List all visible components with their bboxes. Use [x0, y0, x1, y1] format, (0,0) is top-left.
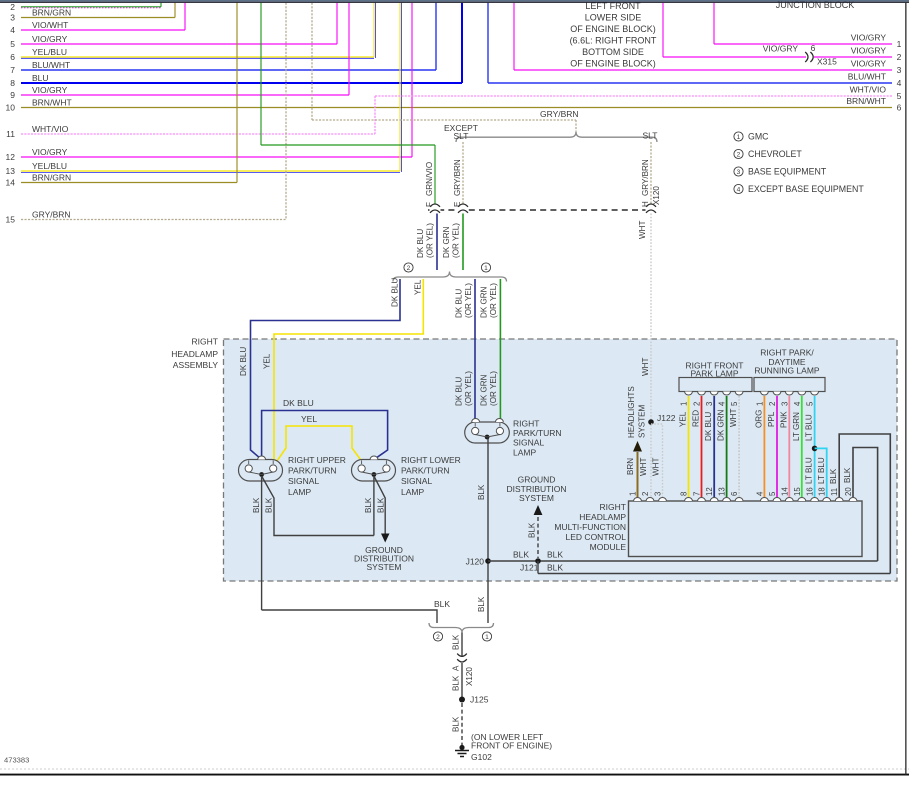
svg-text:HEADLAMP: HEADLAMP — [579, 512, 626, 522]
svg-text:BLU/WHT: BLU/WHT — [32, 60, 70, 70]
svg-text:2: 2 — [10, 2, 15, 12]
svg-text:1: 1 — [737, 134, 741, 141]
svg-text:1: 1 — [484, 265, 488, 272]
svg-text:3: 3 — [10, 13, 15, 23]
svg-text:DK BLU: DK BLU — [455, 377, 464, 406]
svg-text:HEADLIGHTS: HEADLIGHTS — [627, 386, 636, 438]
svg-text:X315: X315 — [817, 57, 837, 67]
svg-text:9: 9 — [10, 90, 15, 100]
svg-text:2: 2 — [436, 634, 440, 641]
svg-text:DK GRN: DK GRN — [442, 226, 451, 258]
svg-text:3: 3 — [737, 169, 741, 176]
svg-text:GRY/BRN: GRY/BRN — [32, 210, 71, 220]
svg-text:BLK: BLK — [477, 596, 486, 612]
svg-text:PARK LAMP: PARK LAMP — [690, 369, 738, 379]
svg-text:11: 11 — [830, 488, 839, 496]
svg-text:5: 5 — [806, 401, 815, 406]
svg-text:YEL: YEL — [414, 279, 423, 295]
svg-text:BLK: BLK — [364, 497, 373, 513]
svg-text:VIO/GRY: VIO/GRY — [851, 33, 887, 43]
svg-text:4: 4 — [793, 401, 802, 406]
svg-text:RIGHT: RIGHT — [192, 337, 218, 347]
svg-text:YEL: YEL — [263, 353, 272, 369]
svg-text:5: 5 — [768, 491, 777, 496]
svg-text:MODULE: MODULE — [590, 542, 627, 552]
svg-text:LT BLU: LT BLU — [817, 457, 826, 484]
svg-text:EXCEPT BASE EQUIPMENT: EXCEPT BASE EQUIPMENT — [748, 184, 864, 194]
svg-text:RIGHT: RIGHT — [513, 419, 539, 429]
svg-text:LAMP: LAMP — [288, 487, 311, 497]
svg-text:DK BLU: DK BLU — [283, 398, 314, 408]
svg-text:PPL: PPL — [767, 411, 776, 427]
svg-text:J121: J121 — [520, 563, 539, 573]
svg-text:8: 8 — [680, 492, 689, 496]
svg-text:WHT/VIO: WHT/VIO — [32, 124, 69, 134]
svg-text:2: 2 — [897, 52, 902, 62]
svg-text:BRN: BRN — [626, 458, 635, 475]
svg-text:2: 2 — [693, 402, 702, 406]
svg-text:7: 7 — [693, 492, 702, 496]
svg-text:BLK: BLK — [452, 716, 461, 732]
svg-text:VIO/GRY: VIO/GRY — [32, 147, 68, 157]
svg-text:VIO/GRY: VIO/GRY — [32, 34, 68, 44]
svg-text:GRY/BRN: GRY/BRN — [641, 159, 650, 196]
svg-text:3: 3 — [780, 402, 789, 406]
svg-text:OF ENGINE BLOCK): OF ENGINE BLOCK) — [570, 24, 656, 34]
svg-text:(6.6L: RIGHT FRONT: (6.6L: RIGHT FRONT — [570, 36, 657, 46]
svg-text:WHT: WHT — [639, 458, 648, 476]
svg-text:SYSTEM: SYSTEM — [519, 493, 554, 503]
svg-text:1: 1 — [897, 39, 902, 49]
svg-text:GRN/VIO: GRN/VIO — [425, 162, 434, 196]
svg-text:BLK: BLK — [547, 550, 563, 560]
svg-text:J120: J120 — [466, 557, 485, 567]
svg-text:BLK: BLK — [829, 468, 838, 484]
svg-text:A: A — [452, 665, 461, 671]
svg-text:ORG: ORG — [754, 410, 763, 428]
svg-text:BLK: BLK — [477, 484, 486, 500]
svg-text:4: 4 — [10, 25, 15, 35]
svg-text:PARK/TURN: PARK/TURN — [288, 466, 337, 476]
svg-text:E: E — [453, 201, 462, 207]
svg-text:J122: J122 — [657, 413, 676, 423]
svg-text:WHT: WHT — [638, 221, 647, 239]
svg-text:BRN/WHT: BRN/WHT — [32, 98, 72, 108]
svg-text:BLK: BLK — [452, 634, 461, 650]
svg-text:7: 7 — [10, 65, 15, 75]
svg-text:BLK: BLK — [377, 497, 386, 513]
svg-text:1: 1 — [629, 492, 638, 496]
svg-text:GRY/BRN: GRY/BRN — [540, 109, 579, 119]
svg-text:1: 1 — [680, 402, 689, 406]
svg-text:DK GRN: DK GRN — [480, 286, 489, 318]
svg-text:VIO/WHT: VIO/WHT — [32, 20, 68, 30]
svg-text:1: 1 — [485, 634, 489, 641]
svg-text:WHT/VIO: WHT/VIO — [850, 85, 887, 95]
svg-text:(OR YEL): (OR YEL) — [464, 371, 473, 406]
svg-text:SIGNAL: SIGNAL — [401, 476, 432, 486]
svg-text:HEADLAMP: HEADLAMP — [171, 349, 218, 359]
svg-text:12: 12 — [705, 487, 714, 496]
svg-text:F: F — [425, 202, 434, 207]
svg-text:6: 6 — [811, 43, 816, 53]
svg-text:YEL/BLU: YEL/BLU — [32, 47, 67, 57]
svg-text:DK BLU: DK BLU — [455, 289, 464, 318]
svg-text:RIGHT: RIGHT — [600, 502, 626, 512]
svg-text:BOTTOM SIDE: BOTTOM SIDE — [582, 47, 644, 57]
svg-text:SYSTEM: SYSTEM — [638, 404, 647, 438]
svg-text:WHT: WHT — [729, 409, 738, 427]
svg-text:14: 14 — [780, 487, 789, 496]
svg-text:4: 4 — [755, 491, 764, 496]
svg-text:WHT: WHT — [641, 358, 650, 376]
svg-text:4: 4 — [718, 401, 727, 406]
svg-text:BLK: BLK — [547, 563, 563, 573]
svg-text:15: 15 — [6, 215, 16, 225]
svg-text:BLK: BLK — [434, 599, 450, 609]
svg-text:(OR YEL): (OR YEL) — [489, 371, 498, 406]
svg-text:BRN/WHT: BRN/WHT — [846, 96, 886, 106]
svg-text:PARK/TURN: PARK/TURN — [513, 428, 562, 438]
svg-text:YEL: YEL — [679, 411, 688, 427]
svg-text:LED CONTROL: LED CONTROL — [566, 532, 627, 542]
svg-text:20: 20 — [844, 487, 853, 496]
svg-text:CHEVROLET: CHEVROLET — [748, 149, 802, 159]
svg-text:8: 8 — [10, 78, 15, 88]
svg-text:RUNNING LAMP: RUNNING LAMP — [754, 366, 820, 376]
svg-text:GROUND: GROUND — [518, 475, 556, 485]
svg-text:18: 18 — [818, 487, 827, 496]
svg-text:BRN/GRN: BRN/GRN — [32, 173, 71, 183]
svg-text:LT BLU: LT BLU — [805, 414, 814, 441]
svg-text:X120: X120 — [652, 186, 661, 205]
svg-text:BLK: BLK — [265, 497, 274, 513]
svg-text:6: 6 — [730, 492, 739, 496]
svg-text:(OR YEL): (OR YEL) — [464, 283, 473, 318]
svg-text:14: 14 — [6, 178, 16, 188]
svg-text:5: 5 — [730, 401, 739, 406]
svg-text:(OR YEL): (OR YEL) — [489, 283, 498, 318]
svg-text:16: 16 — [806, 487, 815, 496]
svg-text:3: 3 — [654, 492, 663, 496]
svg-text:DK BLU: DK BLU — [704, 412, 713, 441]
svg-text:SIGNAL: SIGNAL — [513, 438, 544, 448]
svg-text:FRONT OF ENGINE): FRONT OF ENGINE) — [471, 741, 552, 751]
svg-text:LOWER SIDE: LOWER SIDE — [585, 13, 642, 23]
svg-text:5: 5 — [10, 39, 15, 49]
svg-text:(OR YEL): (OR YEL) — [452, 223, 461, 258]
svg-text:13: 13 — [718, 487, 727, 496]
svg-text:2: 2 — [407, 265, 411, 272]
svg-text:PARK/TURN: PARK/TURN — [401, 466, 450, 476]
svg-text:BLU: BLU — [32, 73, 49, 83]
svg-text:SYSTEM: SYSTEM — [367, 562, 402, 572]
svg-text:VIO/GRY: VIO/GRY — [851, 46, 887, 56]
svg-text:LT GRN: LT GRN — [792, 412, 801, 441]
svg-text:SIGNAL: SIGNAL — [288, 476, 319, 486]
svg-text:LAMP: LAMP — [513, 447, 536, 457]
svg-text:5: 5 — [897, 91, 902, 101]
svg-text:BLK: BLK — [252, 497, 261, 513]
svg-text:11: 11 — [6, 129, 15, 139]
svg-text:SLT: SLT — [643, 131, 658, 141]
svg-text:DK GRN: DK GRN — [480, 374, 489, 406]
svg-text:1: 1 — [755, 402, 764, 406]
svg-text:473383: 473383 — [4, 756, 29, 765]
svg-text:H: H — [641, 201, 650, 207]
svg-text:12: 12 — [6, 152, 16, 162]
svg-text:RED: RED — [692, 410, 701, 427]
svg-text:VIO/GRY: VIO/GRY — [32, 85, 68, 95]
svg-text:6: 6 — [10, 52, 15, 62]
svg-text:DK GRN: DK GRN — [717, 409, 726, 441]
svg-text:G102: G102 — [471, 752, 492, 762]
svg-text:GRY/BRN: GRY/BRN — [453, 159, 462, 196]
svg-text:DK BLU: DK BLU — [416, 229, 425, 258]
svg-text:LAMP: LAMP — [401, 487, 424, 497]
svg-text:6: 6 — [897, 103, 902, 113]
svg-text:BLK: BLK — [843, 467, 852, 483]
svg-text:DK BLU: DK BLU — [391, 278, 400, 307]
svg-text:BLK: BLK — [528, 522, 537, 538]
svg-text:4: 4 — [737, 186, 741, 193]
svg-text:VIO/GRY: VIO/GRY — [851, 59, 887, 69]
svg-text:BLK: BLK — [452, 675, 461, 691]
svg-text:DK BLU: DK BLU — [239, 347, 248, 376]
svg-text:LT BLU: LT BLU — [805, 457, 814, 484]
svg-text:SLT: SLT — [454, 131, 469, 141]
svg-text:WHT: WHT — [652, 458, 661, 476]
svg-text:BLU/WHT: BLU/WHT — [848, 72, 886, 82]
svg-text:3: 3 — [705, 402, 714, 406]
svg-text:MULTI-FUNCTION: MULTI-FUNCTION — [554, 522, 626, 532]
svg-text:BRN/GRN: BRN/GRN — [32, 8, 71, 18]
svg-text:YEL/BLU: YEL/BLU — [32, 161, 67, 171]
svg-text:VIO/GRY: VIO/GRY — [763, 44, 799, 54]
svg-text:2: 2 — [768, 402, 777, 406]
svg-text:PNK: PNK — [779, 411, 788, 428]
svg-text:BLK: BLK — [513, 550, 529, 560]
svg-text:RIGHT LOWER: RIGHT LOWER — [401, 455, 461, 465]
svg-text:2: 2 — [737, 151, 741, 158]
svg-text:(OR YEL): (OR YEL) — [426, 223, 435, 258]
svg-text:13: 13 — [6, 166, 16, 176]
svg-text:10: 10 — [6, 103, 16, 113]
svg-text:4: 4 — [897, 78, 902, 88]
svg-text:GMC: GMC — [748, 132, 769, 142]
svg-text:X120: X120 — [465, 667, 474, 686]
svg-text:RIGHT UPPER: RIGHT UPPER — [288, 455, 346, 465]
svg-text:3: 3 — [897, 65, 902, 75]
svg-text:YEL: YEL — [301, 414, 317, 424]
svg-text:RIGHT PARK/: RIGHT PARK/ — [760, 348, 814, 358]
svg-text:OF ENGINE BLOCK): OF ENGINE BLOCK) — [570, 59, 656, 69]
svg-text:ASSEMBLY: ASSEMBLY — [173, 360, 219, 370]
svg-text:15: 15 — [793, 487, 802, 496]
svg-text:BASE EQUIPMENT: BASE EQUIPMENT — [748, 167, 827, 177]
svg-text:2: 2 — [641, 492, 650, 496]
svg-text:J125: J125 — [470, 695, 489, 705]
